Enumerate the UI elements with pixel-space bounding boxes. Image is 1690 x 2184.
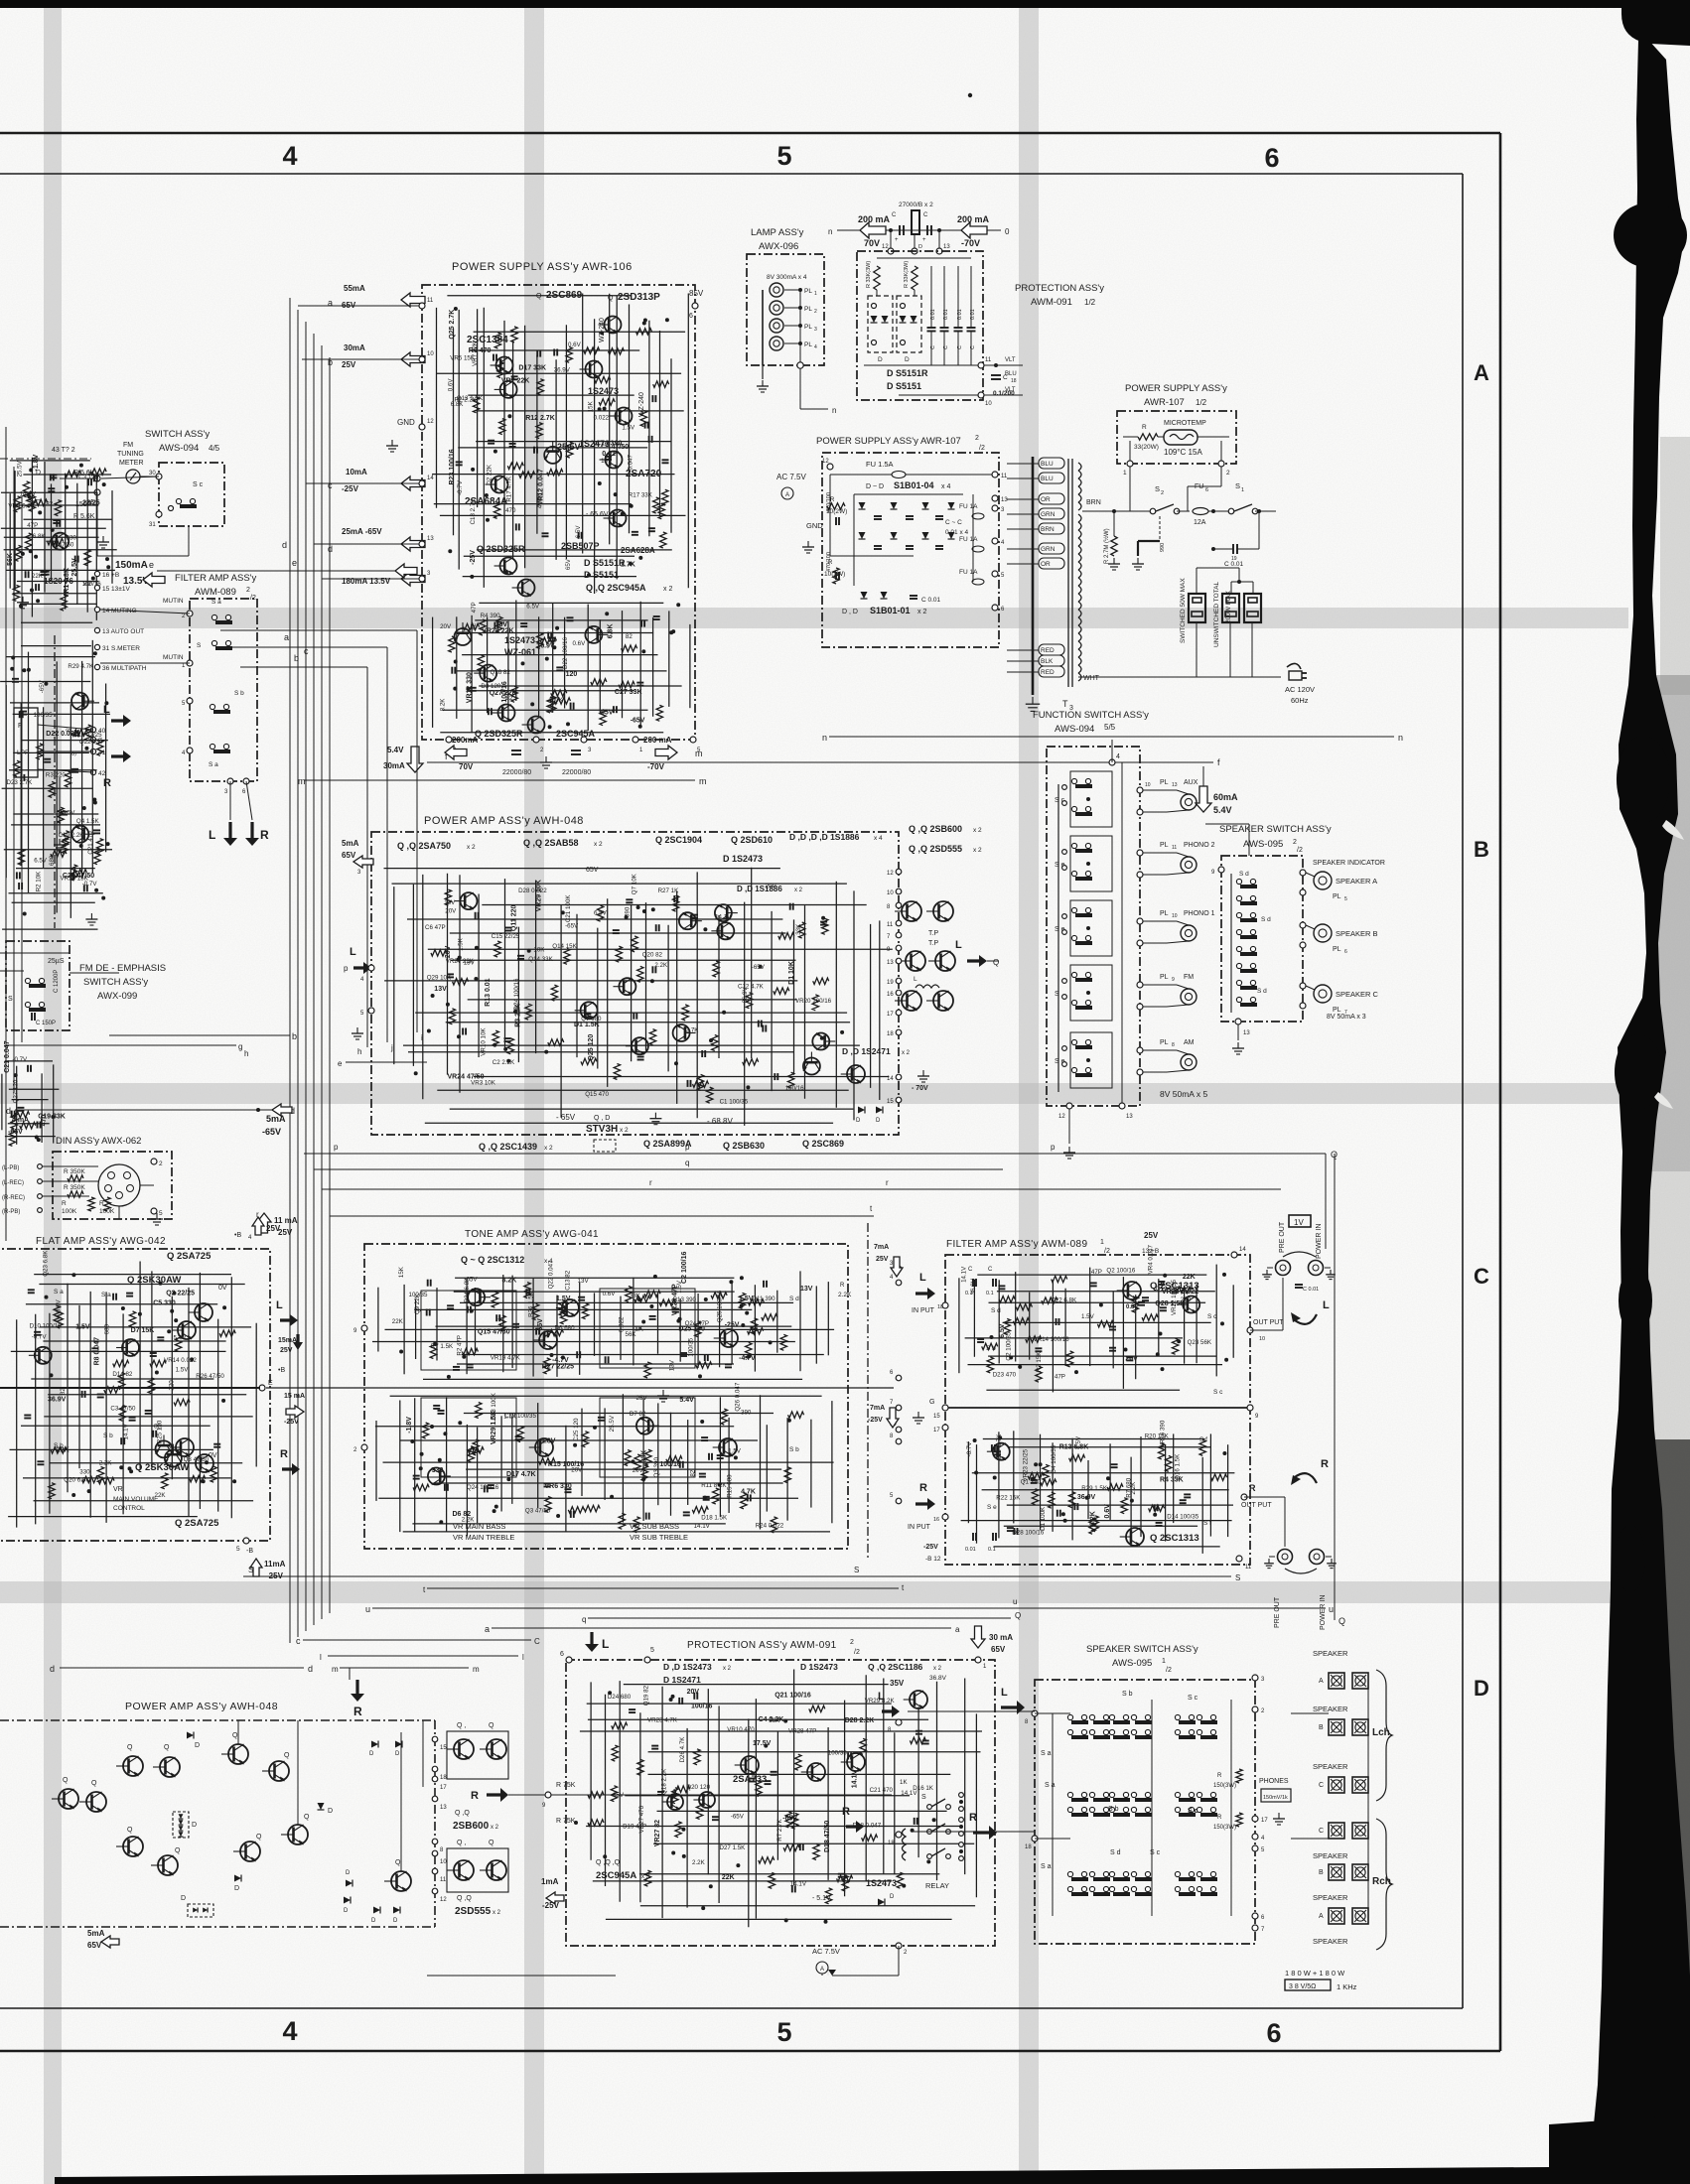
capacitor [651,966,653,973]
capacitor [683,1511,690,1513]
svg-text:AUX: AUX [1184,779,1198,786]
svg-text:S c: S c [1188,1808,1198,1815]
svg-text:-25V: -25V [923,1544,938,1551]
wire spk right [1248,824,1250,856]
resistor [582,1432,588,1447]
svg-text:Q 2SD610: Q 2SD610 [731,835,773,845]
svg-text:R: R [280,1448,288,1460]
transistor [468,1289,491,1305]
svg-text:L: L [209,828,215,842]
svg-text:D: D [192,1822,197,1829]
cap C4 22000/80 [571,750,581,751]
svg-text:u: u [1013,1597,1017,1606]
svg-text:C21 100K: C21 100K [565,894,572,922]
diode D5 [318,1803,325,1810]
svg-text:VR28 47P: VR28 47P [788,1728,816,1735]
svg-text:n: n [828,227,832,236]
capacitor [1160,1306,1167,1308]
resistor [658,503,664,519]
power plug [1287,663,1301,669]
resistor [778,933,794,939]
outlet feed wires [1196,594,1197,650]
svg-text:m: m [473,1665,480,1674]
svg-text:L: L [276,1299,283,1311]
svg-text:8.2K: 8.2K [1089,1511,1096,1526]
svg-text:PL: PL [1160,910,1169,917]
svg-text:AC 120V: AC 120V [1285,685,1315,694]
svg-text:D6 82: D6 82 [453,1511,472,1518]
svg-text:11: 11 [1245,1565,1252,1570]
svg-text:60mA: 60mA [1213,792,1238,802]
capacitor [1090,1282,1097,1284]
transistor Q9 [494,558,517,575]
resistor [641,1465,647,1481]
svg-text:D14 100/35: D14 100/35 [1167,1514,1199,1521]
resistor [18,849,24,865]
scan artifact top right corner [1621,0,1690,46]
svg-text:0.01: 0.01 [965,1547,976,1553]
resistor [746,1342,752,1358]
svg-text:AWM-091: AWM-091 [1031,297,1072,308]
capacitor [447,1304,454,1306]
svg-text:R2 10K: R2 10K [35,871,42,892]
ground pa [356,1027,358,1033]
resistor [1049,1492,1055,1508]
svg-text:BLK: BLK [1041,658,1054,665]
resistor [478,655,484,671]
capacitor [37,1460,44,1462]
svg-text:Q22 0.047: Q22 0.047 [547,1260,554,1289]
svg-text:- 65V: - 65V [556,1113,576,1122]
svg-text:5.4V: 5.4V [387,746,404,754]
resistor [739,1293,745,1308]
capacitor [662,459,669,461]
svg-text:m: m [699,776,707,786]
svg-text:18: 18 [887,1031,894,1037]
svg-text:D 1S2473: D 1S2473 [723,854,763,864]
svg-text:R: R [62,1200,67,1207]
resistor [449,1009,455,1024]
resistor [175,1335,181,1351]
svg-text:18: 18 [1011,378,1017,384]
svg-text:Q2 22/25: Q2 22/25 [166,1291,195,1297]
svg-text:390: 390 [741,1409,752,1416]
svg-text:D: D [369,1751,374,1757]
svg-text:RED: RED [1041,647,1055,654]
ground 2 [807,541,809,547]
capacitor [799,1843,801,1850]
svg-text:Q13 1.5K: Q13 1.5K [457,395,484,402]
capacitor [152,1431,154,1437]
svg-text:2.7K: 2.7K [686,1027,700,1034]
svg-text:-65V: -65V [611,1792,625,1799]
svg-text:C18 2.7K: C18 2.7K [470,498,477,525]
svg-text:D10 100/16: D10 100/16 [30,1322,63,1329]
svg-text:0V: 0V [209,1452,217,1459]
svg-text:2SA733: 2SA733 [733,1774,767,1785]
wire 4 top [983,761,1112,763]
svg-text:PL: PL [804,306,812,313]
svg-text:20V: 20V [571,1466,583,1473]
svg-text:C2 2.2K: C2 2.2K [493,1059,515,1066]
svg-text:R 33K(3W): R 33K(3W) [904,261,910,288]
capacitor [649,1315,656,1317]
svg-text:r: r [886,1178,889,1187]
resistor [547,1329,563,1335]
svg-text:C: C [923,212,928,218]
left dash boundary [54,635,56,928]
svg-text:C21 470: C21 470 [870,1787,894,1794]
svg-text:Q: Q [395,1859,401,1866]
svg-text:n: n [822,733,827,743]
svg-text:D: D [328,1808,333,1815]
svg-text:14.1V: 14.1V [961,1266,968,1283]
scan artifact top strip [0,0,1630,8]
wire d2 [60,1667,304,1669]
svg-text:C 0.01: C 0.01 [1224,561,1244,568]
wire g [6,1044,236,1046]
capacitor [556,666,563,668]
svg-text:a: a [284,632,289,642]
svg-text:PL: PL [804,288,812,295]
resistor [71,730,87,736]
resistor [1199,1439,1205,1455]
svg-text:D: D [878,356,883,363]
transistor Q [153,1757,180,1777]
resistor [634,1517,639,1533]
svg-text:n: n [832,406,836,415]
svg-text:13V: 13V [578,1278,590,1285]
svg-text:VR: VR [113,1486,123,1493]
transistor [613,978,635,995]
svg-text:20V: 20V [687,1689,700,1696]
svg-text:1.5V: 1.5V [556,1296,571,1302]
wire t2 [427,1587,899,1589]
capacitor [712,1816,719,1818]
inner dash box D7 [897,296,921,352]
resistor [519,472,535,478]
capacitor [93,829,100,831]
svg-text:-65V: -65V [752,964,766,971]
svg-text:10: 10 [427,351,434,357]
wire mesh [436,308,438,508]
svg-text:D4 100/35: D4 100/35 [1051,1444,1057,1473]
resistor [568,1507,584,1513]
ground f [545,756,547,762]
arrow 30mA 65V [971,1626,985,1648]
svg-text:C22 6.8K: C22 6.8K [1051,1297,1077,1303]
svg-text:D: D [918,244,922,250]
svg-text:FU: FU [1195,483,1203,490]
resistor [653,497,659,513]
capacitor [511,375,518,377]
svg-text:42: 42 [98,770,106,777]
svg-text:-0.7V: -0.7V [457,479,464,495]
node 14 [1231,1252,1237,1258]
svg-text:14.1V: 14.1V [694,1523,711,1530]
svg-text:Q: Q [232,1732,238,1739]
node 2 din [151,1159,157,1164]
svg-text:Q21 100/16: Q21 100/16 [775,1692,811,1699]
svg-text:VR7 22K: VR7 22K [501,377,529,384]
capacitor [488,440,494,442]
svg-text:Q 2SC869: Q 2SC869 [802,1139,844,1149]
transistor [428,1467,451,1484]
svg-text:D25 390: D25 390 [678,1326,705,1333]
capacitor [774,1073,775,1080]
resistor [707,1087,713,1103]
svg-text:8.2K: 8.2K [439,698,446,712]
capacitor [533,447,535,454]
resistor [746,993,752,1009]
capacitor [847,1752,849,1759]
svg-text:C12 4.7K: C12 4.7K [738,984,765,991]
svg-text:-0.7V: -0.7V [32,1334,48,1341]
svg-text:VR MAIN BASS: VR MAIN BASS [453,1522,505,1531]
capacitor [447,973,454,975]
dashed diode box D2 [188,1904,213,1917]
svg-text:2SA628A: 2SA628A [621,546,655,555]
resistor [713,961,719,977]
wire mesh [9,493,11,589]
svg-text:p: p [685,1143,690,1152]
ground [90,913,92,919]
svg-text:VR14 100/16: VR14 100/16 [1034,1336,1070,1343]
svg-text:h: h [244,1049,248,1058]
svg-text:A: A [785,492,789,498]
svg-text:13: 13 [1001,497,1008,503]
svg-text:R12 2.7K: R12 2.7K [525,415,555,422]
svg-text:C5 330: C5 330 [153,1300,176,1307]
capacitor [129,1417,136,1419]
svg-text:D , D: D , D [842,609,858,615]
svg-text:PL: PL [1160,842,1169,849]
pin 6 [243,778,249,784]
svg-text:PL: PL [804,341,812,348]
svg-text:PROTECTION ASS'y: PROTECTION ASS'y [1015,283,1104,294]
capacitor [1031,1479,1038,1481]
svg-text:33(20W): 33(20W) [1134,444,1159,451]
svg-text:-25V: -25V [542,1901,560,1910]
svg-text:A: A [1319,1678,1324,1685]
capacitor [605,456,612,458]
ground tone [662,1390,664,1396]
svg-text:l: l [320,1653,322,1662]
diodes D5 D6 [861,592,868,599]
svg-text:14: 14 [427,476,434,481]
capacitor [467,1306,469,1313]
right pin column [896,869,902,875]
svg-text:D23 2.7K: D23 2.7K [7,779,34,786]
capacitor [629,1708,635,1710]
arrow 60mA 5.4V [1202,766,1204,786]
svg-text:R4 33K: R4 33K [1160,1477,1184,1484]
svg-text:-B 12: -B 12 [925,1556,941,1563]
capacitor [517,955,524,957]
svg-text:/2: /2 [1166,1667,1172,1674]
svg-text:PRE OUT: PRE OUT [1274,1596,1281,1628]
capacitor [433,1405,440,1407]
resistor [696,1362,712,1368]
svg-text:Q: Q [489,1840,494,1846]
wires filter pins [100,610,190,614]
svg-text:Q 2SC1904: Q 2SC1904 [655,835,702,845]
ground [22,597,24,603]
svg-text:D ,D 1S2473: D ,D 1S2473 [663,1662,712,1672]
svg-text:-4.7V: -4.7V [739,1355,756,1362]
transistor [585,626,608,643]
svg-text:2.2K: 2.2K [654,962,668,969]
transistor Q12 [493,705,515,722]
svg-text:Q22 330: Q22 330 [79,739,103,746]
resistor [413,1484,429,1490]
transistor Q [52,1789,78,1809]
transistor Q [262,1761,289,1781]
svg-text:30mA: 30mA [344,343,365,352]
svg-text:PRE OUT: PRE OUT [1279,1221,1286,1253]
resistor [1149,1505,1165,1511]
capacitor [535,1328,537,1335]
capacitor [150,1352,157,1354]
transistor Q4 [491,357,513,374]
svg-text:36 MULTIPATH: 36 MULTIPATH [102,665,147,672]
capacitor [35,584,37,591]
resistor [748,1328,764,1334]
svg-text:6.5V: 6.5V [526,603,540,610]
svg-text:D26 4.7K: D26 4.7K [679,1736,686,1763]
svg-text:L: L [914,976,917,983]
svg-text:R3 22K: R3 22K [515,1004,522,1027]
lower pa wires [237,1720,239,1744]
switch unit [1109,1792,1114,1797]
capacitor [699,1473,706,1475]
node 35 [94,489,100,495]
svg-text:13V: 13V [669,1359,676,1371]
node 17 [942,1425,948,1431]
svg-text:VR7 22K: VR7 22K [472,341,479,366]
svg-text:47P: 47P [471,602,478,613]
svg-text:Q: Q [256,1834,262,1841]
resistor [51,1447,67,1453]
resistor [422,1423,428,1438]
capacitor [703,1496,710,1498]
svg-text:Q1 390: Q1 390 [1021,1479,1042,1486]
wires i j k [220,629,417,631]
wires switch [60,478,97,479]
svg-text:Q11 220: Q11 220 [511,905,518,932]
svg-text:Q25 120: Q25 120 [588,1034,595,1061]
svg-text:SPEAKER: SPEAKER [1313,1649,1348,1658]
svg-text:BLU: BLU [1041,461,1054,468]
capacitor [922,1740,929,1742]
svg-text:0.022: 0.022 [594,414,610,421]
svg-text:65V: 65V [342,851,356,860]
svg-text:5: 5 [236,1546,240,1553]
svg-text:+: + [922,237,926,243]
svg-text:S f: S f [1199,1436,1207,1443]
svg-text:14.1V: 14.1V [20,491,37,498]
svg-text:D14 82: D14 82 [112,1371,133,1378]
switch unit [1175,1729,1180,1734]
svg-text:1/2: 1/2 [1084,298,1096,307]
svg-text:S e: S e [987,1504,997,1511]
resistor [860,1738,866,1754]
svg-text:D: D [856,1118,861,1124]
bracket Rch [1376,1819,1392,1950]
svg-text:D: D [890,1894,895,1900]
svg-text:D: D [393,1918,398,1924]
capacitor [475,912,477,919]
resistor [614,1064,620,1080]
svg-text:S d: S d [789,1296,799,1302]
lamp PL AUX [1137,787,1143,793]
capacitor [12,678,19,680]
capacitor [567,616,574,618]
svg-text:•B: •B [278,1367,285,1374]
svg-text:11: 11 [1172,845,1177,851]
svg-text:-65V: -65V [782,1815,797,1822]
svg-text:13V: 13V [444,899,456,906]
pin 2 [187,611,193,616]
resistor [547,697,553,713]
svg-text:14.1V: 14.1V [790,1880,807,1887]
svg-text:25.5V: 25.5V [609,1415,616,1432]
capacitor [1138,1301,1145,1303]
transistor [600,452,623,469]
svg-text:17.5V: 17.5V [753,1740,772,1747]
resistor [672,1788,678,1804]
svg-text:-1.8V: -1.8V [406,1417,413,1433]
capacitor [771,1771,777,1773]
diode D9 [344,1897,351,1904]
svg-text:0.6V: 0.6V [573,640,587,647]
svg-text:Q16 82: Q16 82 [491,669,511,676]
resistor [634,1296,650,1301]
svg-text:-65V: -65V [8,1129,23,1136]
node 5p [644,1657,650,1663]
resistor [659,1299,675,1305]
svg-text:70V: 70V [864,238,880,248]
svg-text:330: 330 [67,535,77,542]
svg-text:S a: S a [211,599,221,606]
svg-text:C: C [1319,1782,1324,1789]
svg-text:VR29 10K: VR29 10K [536,880,543,911]
speaker wires right [1291,1712,1329,1714]
transistor [626,1037,648,1054]
capacitor [644,422,646,429]
resistor [1042,1297,1057,1303]
capacitor [512,1323,519,1325]
svg-text:C27 33K: C27 33K [615,689,642,696]
microtemp symbol [1164,430,1197,445]
resistor [1041,1479,1056,1485]
svg-text:6.8K: 6.8K [607,623,614,638]
svg-text:0.022: 0.022 [619,1316,626,1332]
capacitor [838,1873,845,1875]
svg-text:12: 12 [427,419,434,425]
svg-text:Q ,Q 2SD555: Q ,Q 2SD555 [909,844,962,854]
svg-text:S d: S d [1257,988,1267,995]
svg-text:2SD313P: 2SD313P [618,292,660,303]
svg-text:5.4V: 5.4V [1213,805,1232,815]
svg-text:Q 2SD325R: Q 2SD325R [477,544,525,554]
resistor [554,698,570,704]
svg-text:AWS-095: AWS-095 [1112,1658,1152,1669]
svg-text:Q18 2.2K: Q18 2.2K [661,1768,668,1795]
svg-text:PL: PL [1333,946,1341,953]
node 13 [1119,1103,1125,1109]
svg-text:-65V: -65V [731,1814,745,1821]
